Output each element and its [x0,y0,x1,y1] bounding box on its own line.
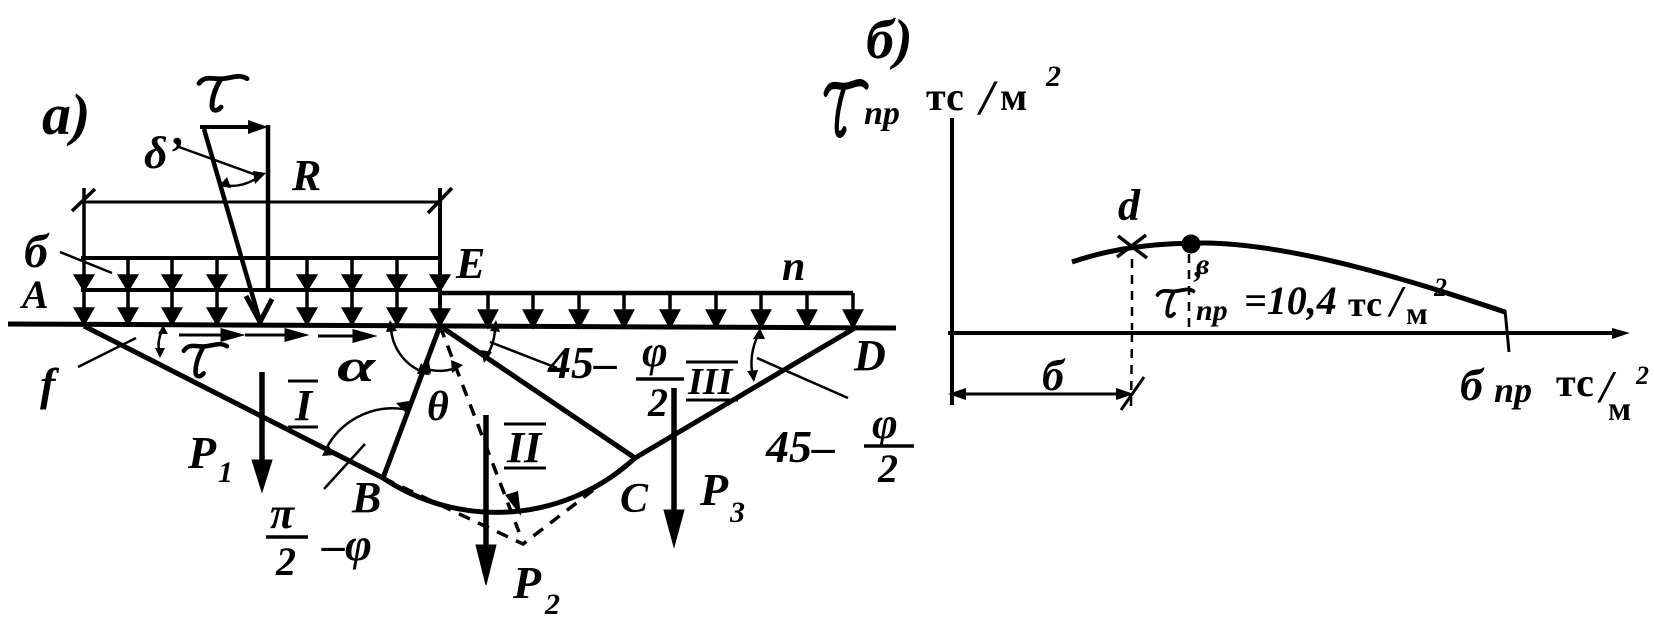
svg-text:–φ: –φ [321,519,372,570]
svg-text:2: 2 [877,446,898,491]
svg-text:м: м [1608,391,1631,428]
svg-text:δ’: δ’ [144,127,183,178]
svg-text:φ: φ [642,327,668,376]
svg-text:I: I [294,381,314,430]
svg-text:пр: пр [1196,294,1228,327]
svg-text:45–: 45– [765,421,835,472]
svg-text:D: D [853,331,886,380]
svg-text:C: C [620,476,649,522]
svg-text:B: B [351,473,381,522]
svg-text:б: б [24,225,50,278]
svg-text:2: 2 [544,588,560,621]
svg-text:II: II [506,423,543,472]
svg-text:пр: пр [1494,370,1532,410]
svg-text:α: α [337,340,377,391]
svg-text:π: π [270,489,295,538]
svg-text:б: б [1460,359,1485,410]
svg-text:P: P [512,557,542,608]
svg-text:n: n [782,244,805,290]
svg-text:м: м [1000,74,1027,119]
svg-text:2: 2 [1635,361,1649,390]
svg-text:3: 3 [729,496,745,529]
svg-text:P: P [699,464,729,515]
svg-text:d: d [1118,181,1141,230]
svg-text:2: 2 [1433,273,1447,302]
svg-text:2: 2 [1045,60,1061,93]
svg-text:б: б [1042,351,1066,400]
svg-text:2: 2 [275,539,296,584]
svg-text:2: 2 [647,380,668,425]
svg-text:=10,4: =10,4 [1244,278,1337,323]
svg-text:III: III [687,361,734,403]
svg-text:A: A [19,272,49,317]
svg-text:б): б) [866,9,913,71]
svg-text:тс: тс [1556,360,1594,405]
svg-text:φ: φ [872,399,898,448]
svg-text:пр: пр [864,95,900,132]
svg-text:a): a) [42,82,90,147]
svg-text:E: E [455,239,485,288]
svg-text:45–: 45– [547,337,617,388]
svg-text:θ: θ [427,384,449,430]
svg-text:1: 1 [218,456,233,489]
svg-text:P: P [187,427,217,478]
svg-text:м: м [1406,295,1428,331]
svg-text:R: R [291,151,321,200]
svg-text:тс: тс [1348,284,1382,324]
svg-text:тс: тс [926,74,964,119]
